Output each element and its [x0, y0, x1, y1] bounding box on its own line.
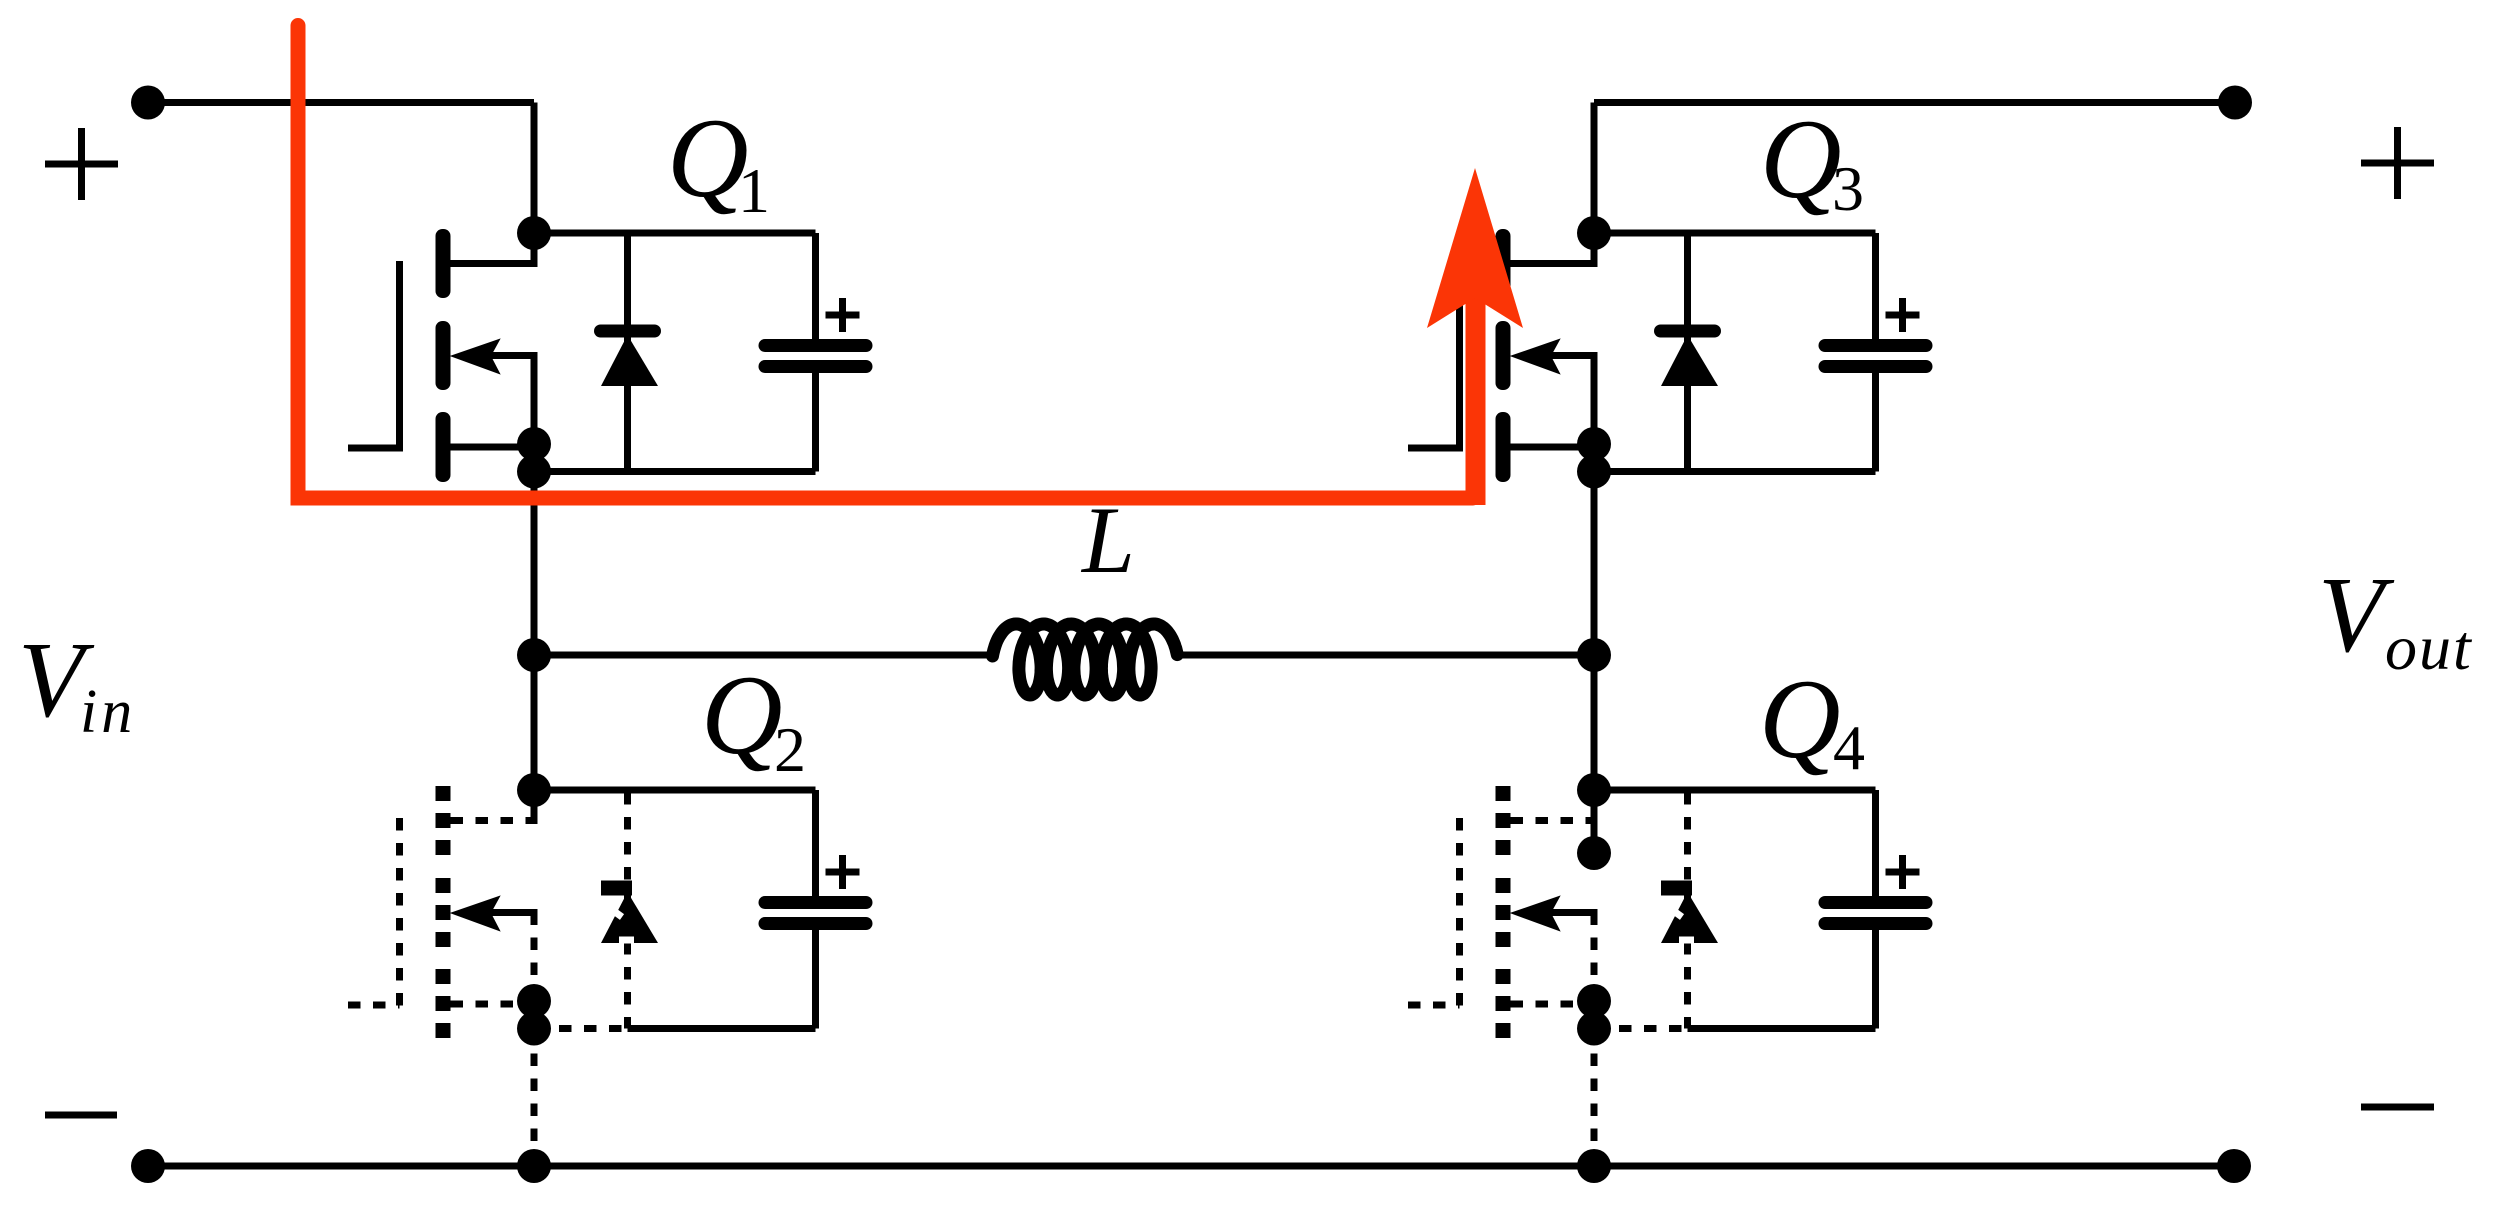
svg-text:Q: Q	[701, 653, 783, 778]
svg-text:Q: Q	[1760, 97, 1842, 222]
svg-text:out: out	[2385, 612, 2473, 683]
svg-text:V: V	[2318, 556, 2395, 675]
svg-text:3: 3	[1832, 153, 1864, 224]
svg-text:L: L	[1080, 487, 1135, 593]
svg-text:1: 1	[738, 155, 770, 226]
svg-text:2: 2	[774, 714, 806, 785]
svg-text:in: in	[80, 678, 136, 746]
svg-text:4: 4	[1833, 712, 1865, 783]
svg-text:Q: Q	[1759, 657, 1841, 782]
svg-text:Q: Q	[667, 96, 749, 221]
